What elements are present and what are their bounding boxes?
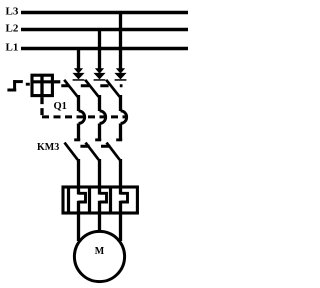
breaker Q1 arc element pole 1 xyxy=(79,111,85,124)
svg-text:Q1: Q1 xyxy=(54,101,67,112)
wire pole 3 KM3 to heater xyxy=(119,159,122,195)
svg-text:L3: L3 xyxy=(6,6,19,18)
svg-text:L2: L2 xyxy=(6,23,19,35)
breaker Q1 blade pole 2 xyxy=(85,80,99,97)
wire L2 line xyxy=(21,28,188,31)
wire L3 line xyxy=(21,11,188,14)
contactor KM3 fixed contact tick pole 3 xyxy=(116,138,122,141)
wire pole 1 arc to KM3 xyxy=(77,124,80,141)
wire pole 1 below blade xyxy=(77,95,80,111)
wire pole 3 heater to motor xyxy=(119,201,122,241)
wire pole 2 KM3 to heater xyxy=(98,159,101,195)
wire pole 3 arc to KM3 xyxy=(119,124,122,141)
thermal relay heater jog pole 2 xyxy=(100,193,107,202)
dashed mechanical linkage through arc elements xyxy=(42,115,127,118)
thermal relay heater left bar pole 2 xyxy=(88,187,91,213)
wire pole 1 KM3 to heater xyxy=(77,159,80,195)
thermal relay heater jog pole 1 xyxy=(79,193,86,202)
breaker Q1 arc element pole 3 xyxy=(121,111,127,124)
thermal relay heater left bar pole 1 xyxy=(67,187,70,213)
wire drop from L2 to pole 2 xyxy=(98,30,101,70)
thermal relay box xyxy=(63,187,137,213)
wire L1 line xyxy=(21,47,188,50)
thermal relay heater jog pole 3 xyxy=(121,193,128,202)
breaker Q1 plug-in contact pole 3 xyxy=(114,68,126,80)
wire stub right of Q1 box xyxy=(54,80,60,83)
wire drop from L3 to pole 3 xyxy=(119,13,122,70)
wire handle to Q1 box dash xyxy=(26,83,30,86)
breaker Q1 blade pole 1 xyxy=(64,80,78,97)
breaker Q1 operator box xyxy=(31,75,53,97)
wire pole 2 below blade xyxy=(98,95,101,111)
contactor KM3 fixed contact tick pole 2 xyxy=(95,138,101,141)
thermal relay heater left bar pole 3 xyxy=(109,187,112,213)
dashed linkage from Q1 box down xyxy=(40,97,43,118)
wire pole 2 heater to motor xyxy=(98,201,101,232)
dashed mechanical linkage Q1 blades xyxy=(61,84,122,87)
wire pole 1 heater to motor xyxy=(77,201,80,241)
breaker Q1 blade pole 3 xyxy=(106,80,120,97)
wire pole 2 arc to KM3 xyxy=(98,124,101,141)
dashed mechanical linkage KM3 xyxy=(80,145,110,148)
contactor KM3 blade pole 2 xyxy=(86,143,99,160)
wire drop from L1 to pole 1 xyxy=(77,49,80,70)
contactor KM3 fixed contact tick pole 1 xyxy=(74,138,80,141)
contactor KM3 blade pole 1 xyxy=(65,143,78,160)
svg-text:L1: L1 xyxy=(6,42,19,54)
contactor KM3 blade pole 3 xyxy=(107,143,120,160)
svg-text:KM3: KM3 xyxy=(37,142,59,153)
svg-text:M: M xyxy=(95,246,105,257)
breaker Q1 plug-in contact pole 2 xyxy=(93,68,105,80)
breaker Q1 arc element pole 2 xyxy=(100,111,106,124)
manual operator handle xyxy=(7,80,22,91)
wire pole 3 below blade xyxy=(119,95,122,111)
breaker Q1 plug-in contact pole 1 xyxy=(72,68,84,80)
motor M circle xyxy=(74,231,124,281)
